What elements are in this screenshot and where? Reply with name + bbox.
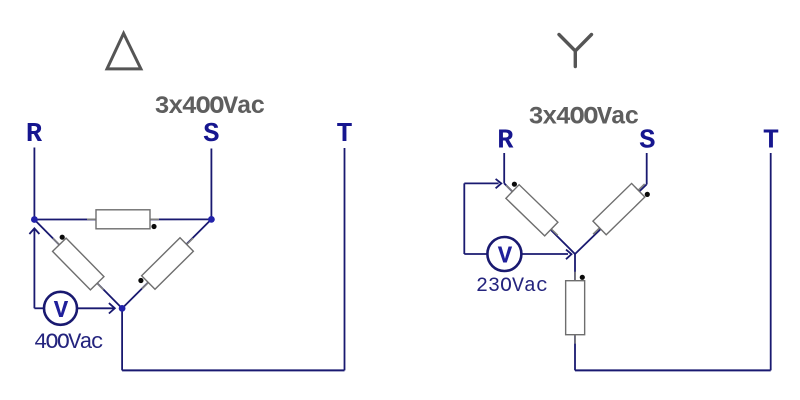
- svg-text:T: T: [763, 127, 779, 157]
- wire phase T vertical (delta): [344, 148, 346, 370]
- node S junction (delta): [208, 216, 215, 223]
- arrow right toward star point (wye): [566, 250, 572, 260]
- resistor T winding (wye vertical): [566, 272, 585, 344]
- svg-text:T: T: [336, 120, 352, 150]
- terminal dot of wye resistor S: [645, 192, 650, 197]
- node R junction (delta): [31, 216, 38, 223]
- svg-text:R: R: [497, 127, 514, 157]
- wire bottom node down (delta): [121, 308, 123, 370]
- wye symbol: [559, 35, 592, 67]
- arrow right toward R junction (wye): [496, 179, 502, 188]
- wire voltmeter row right segment (delta): [77, 307, 114, 309]
- terminal dot of wye resistor T: [580, 275, 585, 280]
- wire voltmeter row left segment (delta): [34, 307, 44, 309]
- voltmeter V (wye): [487, 237, 521, 271]
- wire voltmeter left vertical (delta): [33, 230, 35, 309]
- svg-text:V: V: [498, 244, 513, 271]
- delta symbol: [107, 33, 141, 69]
- terminal dot of resistor R-T: [60, 235, 65, 240]
- wire S to star point (wye right diagonal): [575, 185, 647, 255]
- voltmeter V (delta): [44, 292, 77, 325]
- svg-text:V: V: [54, 298, 69, 325]
- wire S-node to bottom node (delta right diagonal): [122, 219, 211, 308]
- resistor R-S (delta horizontal): [87, 210, 159, 229]
- wire star point down (wye): [574, 254, 576, 370]
- svg-text:3x4OOVac: 3x4OOVac: [155, 92, 266, 121]
- terminal dot of resistor R-S: [151, 224, 156, 229]
- wire bottom horizontal to T (delta): [122, 369, 344, 371]
- wire R-S bus (delta): [34, 218, 211, 220]
- wire phase S vertical (delta): [210, 149, 212, 220]
- wire measure bracket top (wye): [464, 182, 498, 184]
- resistor R-T winding (delta left diagonal): [46, 232, 110, 297]
- wire R to star point (wye left diagonal): [504, 183, 575, 254]
- svg-text:S: S: [203, 120, 219, 150]
- svg-text:R: R: [26, 120, 43, 150]
- wire bottom horizontal to T (wye): [575, 369, 771, 371]
- terminal dot of resistor S-T: [138, 278, 143, 283]
- node bottom junction (delta): [119, 305, 126, 312]
- resistor S winding (wye): [587, 177, 652, 241]
- svg-text:3x4OOVac: 3x4OOVac: [529, 103, 640, 132]
- wire voltmeter to star point (wye): [521, 253, 568, 255]
- arrow up toward R node (delta): [29, 228, 39, 234]
- wire measure bracket vertical (wye): [463, 183, 465, 254]
- arrow right toward bottom node (delta): [109, 303, 115, 313]
- terminal dot of wye resistor R: [512, 182, 517, 187]
- svg-text:23OVac: 23OVac: [476, 275, 548, 298]
- wire phase T vertical (wye): [770, 153, 772, 370]
- svg-text:4OOVac: 4OOVac: [34, 330, 104, 355]
- wire phase S vertical (wye): [646, 153, 648, 185]
- wire phase R vertical (delta): [33, 148, 35, 220]
- wire phase R vertical (wye): [503, 153, 505, 183]
- resistor R winding (wye): [499, 178, 564, 242]
- wire R-node to bottom node (delta left diagonal): [34, 220, 122, 309]
- resistor S-T winding (delta right diagonal): [135, 231, 200, 295]
- svg-text:S: S: [639, 127, 655, 157]
- wire bracket to voltmeter (wye): [464, 253, 487, 255]
